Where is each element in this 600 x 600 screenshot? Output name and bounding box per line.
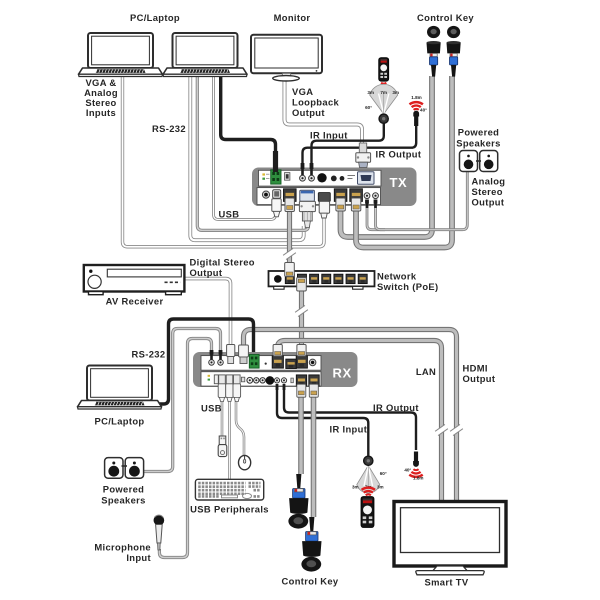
- TX front audio knobs: [317, 173, 355, 182]
- TX front panel LEDs: [262, 173, 269, 179]
- wire control key 4 to RX: [311, 385, 317, 517]
- svg-text:HDMI: HDMI: [463, 363, 488, 374]
- RX USB ports with three device plugs: [218, 375, 240, 402]
- wire control key 1 to TX: [341, 76, 433, 237]
- powered speaker top-right: [480, 151, 498, 172]
- svg-text:Monitor: Monitor: [274, 12, 311, 23]
- IR emitter (bottom): [413, 452, 419, 467]
- RX Cat5e RJ45 + plug from switch: [296, 345, 307, 369]
- svg-text:USB: USB: [201, 403, 222, 414]
- svg-text:IR Output: IR Output: [376, 149, 422, 160]
- svg-text:RS-232: RS-232: [132, 349, 166, 360]
- RX mic jack: [209, 350, 215, 365]
- RX unit: [193, 352, 358, 387]
- laptop PC2 (top): [163, 33, 247, 77]
- TX analog stereo out jack L: [364, 193, 370, 208]
- TX unit: [252, 168, 417, 207]
- wire Cat5e switch to RX: [299, 288, 304, 349]
- TX front VGA loopback port + connector: [356, 143, 374, 184]
- svg-text:3m: 3m: [392, 90, 399, 95]
- wire control key 3 to RX: [298, 385, 304, 474]
- RX digital stereo coax port + plug: [227, 345, 235, 364]
- monitor: [251, 35, 322, 81]
- svg-text:3m: 3m: [352, 484, 359, 489]
- svg-text:PC/Laptop: PC/Laptop: [130, 12, 180, 23]
- svg-text:60°: 60°: [365, 105, 372, 110]
- RX control key RJ45 ports + plugs (bottom): [296, 375, 306, 397]
- break mark LAN cable: [435, 424, 448, 435]
- wire RS-232 RX to PC: [158, 319, 254, 404]
- svg-text:3m: 3m: [377, 484, 384, 489]
- svg-text:40°: 40°: [420, 107, 427, 112]
- laptop PC (bottom): [78, 366, 162, 410]
- wire Cat5e TX to switch: [287, 202, 292, 264]
- TX RS-232 cable end stub: [273, 151, 278, 172]
- USB mouse: [239, 455, 251, 469]
- wire microphone input to RX: [159, 339, 211, 558]
- wire stereo input PC2 to TX (b): [197, 74, 308, 230]
- svg-text:RX: RX: [333, 366, 352, 381]
- svg-text:Output: Output: [292, 107, 325, 118]
- RX DC power port: [309, 359, 316, 366]
- TX RS-232 phoenix connector: [271, 170, 281, 184]
- powered speaker bottom-left: [105, 458, 123, 479]
- IR emitter (top): [413, 111, 419, 126]
- svg-text:Control Key: Control Key: [417, 12, 474, 23]
- TX IR input jack: [309, 163, 315, 181]
- svg-text:Output: Output: [463, 373, 496, 384]
- TX control key RJ45 port 1 + plug: [334, 189, 347, 211]
- svg-text:Microphone: Microphone: [94, 542, 151, 553]
- svg-text:1.8m: 1.8m: [413, 476, 423, 481]
- svg-text:Output: Output: [472, 197, 505, 208]
- IR receiver (bottom): [357, 466, 380, 494]
- bottom speaker link: [122, 465, 128, 467]
- powered speaker bottom-right: [125, 458, 143, 479]
- IR waves from remote (top): [377, 83, 390, 91]
- break mark switch-RX cable: [295, 305, 308, 316]
- switch uplink plug (from TX): [285, 263, 295, 277]
- wire LAN RX to TV: [278, 341, 442, 501]
- RX audio knobs: [247, 376, 274, 385]
- IR remote (bottom): [361, 497, 374, 528]
- TX LAN RJ45 port + plug to switch: [284, 189, 297, 212]
- svg-text:LAN: LAN: [416, 366, 436, 377]
- wire analog stereo output TX to speakers L: [367, 170, 467, 230]
- RX LAN RJ45 + plug: [272, 345, 283, 369]
- svg-text:Input: Input: [126, 552, 151, 563]
- svg-text:PC/Laptop: PC/Laptop: [94, 416, 144, 427]
- svg-text:40°: 40°: [404, 467, 411, 472]
- control key 2: [447, 26, 461, 77]
- svg-text:IR Output: IR Output: [373, 402, 419, 413]
- IR waves of emitter (top): [410, 102, 423, 110]
- svg-text:Speakers: Speakers: [101, 495, 146, 506]
- powered speaker top-left: [460, 151, 478, 172]
- svg-text:60°: 60°: [380, 471, 387, 476]
- wire HDMI output RX to TV: [244, 330, 457, 501]
- svg-text:VGA: VGA: [292, 86, 313, 97]
- RX USB-A service port: [214, 375, 218, 384]
- wire IR output RX: [284, 385, 416, 450]
- wire IR input receiver to TX: [312, 121, 384, 172]
- RX small port: [291, 378, 293, 383]
- speaker link: [476, 160, 481, 162]
- svg-text:7m: 7m: [380, 90, 387, 95]
- switch downlink plug (to RX): [297, 278, 307, 292]
- laptop PC1 (top): [79, 33, 163, 77]
- break mark HDMI cable: [450, 424, 463, 435]
- TX control key RJ45 port 2 + plug: [350, 189, 363, 211]
- svg-text:AV Receiver: AV Receiver: [106, 296, 164, 307]
- svg-text:USB: USB: [219, 209, 240, 220]
- TX IR output jack: [300, 163, 306, 181]
- microphone: [154, 515, 165, 550]
- wire USB keyboard to RX: [228, 398, 231, 479]
- svg-text:Smart TV: Smart TV: [425, 577, 469, 588]
- svg-text:Powered: Powered: [103, 484, 145, 495]
- smart TV: [394, 502, 506, 575]
- svg-text:Inputs: Inputs: [86, 107, 116, 118]
- wire control key 2 to TX: [356, 76, 452, 248]
- RX bottom LEDs: [208, 375, 210, 381]
- TX PC audio/HDMI port + plug: [318, 193, 330, 218]
- RX RS-232 phoenix connector: [249, 355, 259, 369]
- wire VGA loopback monitor to TX: [285, 79, 363, 153]
- svg-text:Switch (PoE): Switch (PoE): [377, 281, 439, 292]
- IR remote (top): [379, 58, 389, 82]
- svg-text:Powered: Powered: [458, 127, 500, 138]
- TX front small switches: [285, 173, 290, 181]
- svg-text:USB Peripherals: USB Peripherals: [190, 504, 269, 515]
- wire USB host PC2 to TX: [214, 74, 276, 220]
- svg-text:Digital Stereo: Digital Stereo: [190, 257, 255, 268]
- wire analog output RX to powered speakers: [143, 329, 221, 472]
- svg-text:3m: 3m: [367, 90, 374, 95]
- network switch (PoE): [269, 271, 375, 289]
- control key 1: [427, 26, 441, 77]
- RX line-out jack: [218, 350, 224, 365]
- svg-text:Speakers: Speakers: [456, 138, 501, 149]
- TX USB-B port + USB cable plug: [272, 190, 281, 217]
- wire analog stereo output TX to speakers R: [376, 202, 386, 230]
- AV receiver: [84, 265, 185, 295]
- wire digital stereo output RX to AV receiver: [184, 279, 231, 345]
- control key 3: [288, 474, 308, 529]
- wire RS-232 PC2 to TX: [221, 74, 276, 168]
- IR receiver (top): [370, 84, 398, 114]
- svg-text:Control Key: Control Key: [282, 576, 339, 587]
- svg-text:IR Input: IR Input: [310, 130, 348, 141]
- RX IR output jack (bottom): [274, 378, 279, 390]
- svg-text:Output: Output: [190, 267, 223, 278]
- svg-text:Analog: Analog: [472, 176, 506, 187]
- USB flash drive: [218, 436, 227, 457]
- TX VGA input port + connector: [299, 190, 315, 227]
- wire IR output emitter to TX: [303, 126, 417, 172]
- RX ethernet port (empty): [286, 359, 297, 368]
- RX small switch: [241, 377, 244, 382]
- svg-text:Network: Network: [377, 271, 417, 282]
- wire VGA+stereo input PC1 to TX: [123, 74, 325, 247]
- TX DC power port: [262, 191, 269, 198]
- svg-text:1.8m: 1.8m: [411, 95, 421, 100]
- wire USB flash drive to RX: [221, 398, 224, 436]
- wire USB mouse to RX: [236, 398, 244, 456]
- RX HDMI output port + plug: [239, 345, 249, 364]
- svg-text:RS-232: RS-232: [152, 123, 186, 134]
- RX status dot: [265, 363, 267, 365]
- RX IR input jack (bottom): [281, 378, 286, 390]
- svg-text:Loopback: Loopback: [292, 97, 340, 108]
- IR waves bottom remote: [362, 488, 375, 496]
- control key 4: [301, 517, 321, 572]
- USB keyboard: [195, 479, 263, 500]
- wire IR input RX: [277, 385, 368, 457]
- TX analog stereo out jack R: [373, 193, 379, 208]
- break mark TX-switch cable: [283, 248, 296, 259]
- svg-text:Stereo: Stereo: [472, 186, 503, 197]
- svg-text:IR Input: IR Input: [330, 424, 368, 435]
- wire VGA input PC2 to TX (a): [190, 74, 303, 240]
- svg-text:TX: TX: [390, 175, 408, 190]
